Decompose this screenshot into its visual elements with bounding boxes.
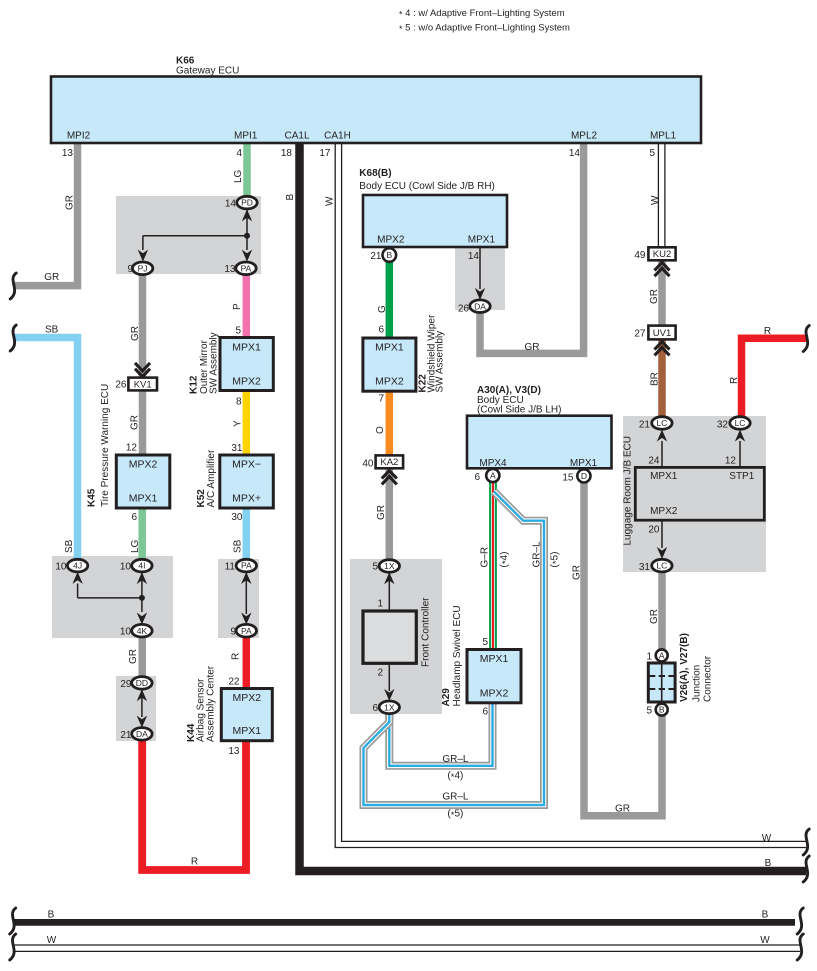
svg-text:* 5 : w/o Adaptive Front–Light: * 5 : w/o Adaptive Front–Lighting System xyxy=(399,23,570,35)
svg-text:UV1: UV1 xyxy=(653,328,671,339)
svg-text:Gateway ECU: Gateway ECU xyxy=(176,66,239,77)
svg-text:31: 31 xyxy=(231,443,243,454)
svg-text:1X: 1X xyxy=(384,561,395,571)
svg-text:MPX1: MPX1 xyxy=(468,235,496,246)
svg-text:MPX2: MPX2 xyxy=(129,459,158,471)
svg-text:26: 26 xyxy=(458,304,470,315)
svg-text:B: B xyxy=(48,910,55,921)
svg-text:MPI1: MPI1 xyxy=(234,131,258,142)
svg-text:4J: 4J xyxy=(73,561,82,571)
svg-text:LG: LG xyxy=(130,539,141,553)
svg-text:MPX1: MPX1 xyxy=(129,493,158,505)
svg-text:K68(B): K68(B) xyxy=(359,168,391,179)
svg-text:32: 32 xyxy=(717,420,729,431)
svg-text:PJ: PJ xyxy=(138,263,148,273)
svg-text:24: 24 xyxy=(648,456,660,467)
svg-text:5: 5 xyxy=(649,148,655,159)
svg-text:4: 4 xyxy=(236,148,242,159)
svg-text:17: 17 xyxy=(319,148,331,159)
svg-text:12: 12 xyxy=(725,456,737,467)
svg-text:GR: GR xyxy=(65,195,76,210)
svg-text:(*5): (*5) xyxy=(550,552,563,568)
svg-text:MPX2: MPX2 xyxy=(375,376,404,388)
svg-text:LC: LC xyxy=(656,561,667,571)
svg-text:MPX2: MPX2 xyxy=(233,692,262,704)
svg-text:6: 6 xyxy=(378,325,384,336)
svg-text:(*4): (*4) xyxy=(499,552,512,568)
svg-text:13: 13 xyxy=(228,746,240,757)
svg-text:6: 6 xyxy=(482,707,488,718)
svg-text:26: 26 xyxy=(115,380,127,391)
svg-text:MPX4: MPX4 xyxy=(479,458,507,469)
svg-text:1: 1 xyxy=(646,652,652,663)
svg-text:MPL1: MPL1 xyxy=(650,131,677,142)
svg-text:KU2: KU2 xyxy=(653,249,671,260)
svg-text:MPL2: MPL2 xyxy=(571,131,598,142)
svg-text:B: B xyxy=(285,194,296,201)
svg-text:GR: GR xyxy=(130,415,141,430)
svg-text:1: 1 xyxy=(377,599,383,610)
svg-text:Connector: Connector xyxy=(703,655,714,702)
svg-text:GR–L: GR–L xyxy=(531,541,542,568)
svg-text:5: 5 xyxy=(235,326,241,337)
svg-text:6: 6 xyxy=(131,512,137,523)
svg-text:5: 5 xyxy=(372,562,378,573)
svg-text:14: 14 xyxy=(225,199,237,210)
svg-text:G–R: G–R xyxy=(480,547,491,568)
svg-text:MPX1: MPX1 xyxy=(570,458,598,469)
svg-text:Junction: Junction xyxy=(692,665,703,702)
svg-text:SW Assembly: SW Assembly xyxy=(209,332,220,394)
svg-text:9: 9 xyxy=(127,264,133,275)
svg-text:GR: GR xyxy=(128,649,139,664)
svg-text:Headlamp Swivel ECU: Headlamp Swivel ECU xyxy=(452,605,463,706)
svg-text:GR–L: GR–L xyxy=(442,792,469,803)
svg-text:40: 40 xyxy=(362,459,374,470)
svg-text:KA2: KA2 xyxy=(380,457,398,468)
svg-text:5: 5 xyxy=(482,637,488,648)
svg-text:Body ECU (Cowl Side J/B RH): Body ECU (Cowl Side J/B RH) xyxy=(359,181,495,192)
svg-text:R: R xyxy=(729,377,740,384)
svg-text:P: P xyxy=(232,303,243,310)
svg-text:10: 10 xyxy=(120,627,132,638)
svg-text:STP1: STP1 xyxy=(729,471,754,482)
svg-text:GR: GR xyxy=(615,804,630,815)
svg-text:MPX1: MPX1 xyxy=(375,342,404,354)
svg-text:6: 6 xyxy=(474,472,480,483)
svg-text:(*4): (*4) xyxy=(447,771,463,784)
svg-text:MPX−: MPX− xyxy=(232,459,261,471)
svg-text:6: 6 xyxy=(372,703,378,714)
svg-text:GR: GR xyxy=(649,609,660,624)
svg-text:W: W xyxy=(325,196,336,206)
svg-text:LG: LG xyxy=(233,169,244,183)
svg-text:G: G xyxy=(377,305,388,313)
svg-text:Tire Pressure Warning ECU: Tire Pressure Warning ECU xyxy=(100,384,111,507)
svg-text:B: B xyxy=(659,705,665,715)
svg-text:29: 29 xyxy=(120,679,132,690)
svg-text:GR: GR xyxy=(44,272,59,283)
svg-text:SB: SB xyxy=(64,539,75,553)
svg-text:MPX2: MPX2 xyxy=(232,376,261,388)
svg-text:PD: PD xyxy=(241,198,253,208)
svg-text:W: W xyxy=(760,935,770,946)
svg-text:MPX2: MPX2 xyxy=(480,687,509,699)
svg-text:21: 21 xyxy=(639,420,651,431)
svg-text:DD: DD xyxy=(136,678,148,688)
svg-text:13: 13 xyxy=(62,148,74,159)
svg-text:GR: GR xyxy=(572,565,583,580)
svg-text:49: 49 xyxy=(634,250,646,261)
svg-text:8: 8 xyxy=(236,397,242,408)
svg-text:A29: A29 xyxy=(441,688,452,707)
svg-text:12: 12 xyxy=(126,443,138,454)
svg-text:10: 10 xyxy=(55,562,67,573)
svg-text:13: 13 xyxy=(224,264,236,275)
svg-text:Y: Y xyxy=(233,420,244,427)
svg-text:W: W xyxy=(47,935,57,946)
svg-text:A: A xyxy=(490,471,496,481)
svg-text:GR: GR xyxy=(130,326,141,341)
svg-text:2: 2 xyxy=(377,668,383,679)
svg-text:PA: PA xyxy=(241,626,252,636)
svg-text:4I: 4I xyxy=(138,561,145,571)
svg-text:B: B xyxy=(762,910,769,921)
svg-text:KV1: KV1 xyxy=(134,379,152,390)
svg-text:18: 18 xyxy=(281,148,293,159)
svg-text:GR–L: GR–L xyxy=(442,754,469,765)
svg-text:CA1H: CA1H xyxy=(324,131,351,142)
svg-text:31: 31 xyxy=(639,562,651,573)
svg-text:14: 14 xyxy=(569,148,581,159)
svg-text:27: 27 xyxy=(634,329,646,340)
svg-text:10: 10 xyxy=(120,562,132,573)
svg-text:MPX1: MPX1 xyxy=(232,342,261,354)
svg-text:R: R xyxy=(764,326,771,337)
svg-text:CA1L: CA1L xyxy=(284,131,309,142)
svg-text:GR: GR xyxy=(376,505,387,520)
svg-text:1X: 1X xyxy=(384,702,395,712)
svg-text:GR: GR xyxy=(525,342,540,353)
svg-text:Luggage Room J/B ECU: Luggage Room J/B ECU xyxy=(623,436,634,546)
svg-text:R: R xyxy=(191,857,198,868)
svg-text:7: 7 xyxy=(378,394,384,405)
svg-text:30: 30 xyxy=(231,512,243,523)
svg-text:MPX+: MPX+ xyxy=(232,493,261,505)
svg-text:PA: PA xyxy=(241,263,252,273)
svg-text:B: B xyxy=(386,250,392,260)
svg-text:BR: BR xyxy=(650,372,661,386)
svg-text:LC: LC xyxy=(735,418,746,428)
svg-text:MPX2: MPX2 xyxy=(650,506,678,517)
svg-text:MPI2: MPI2 xyxy=(67,131,91,142)
svg-text:Front Controller: Front Controller xyxy=(421,597,432,667)
svg-text:22: 22 xyxy=(228,677,240,688)
svg-text:(*5): (*5) xyxy=(447,809,463,822)
svg-text:W: W xyxy=(650,195,661,205)
svg-text:SB: SB xyxy=(45,325,59,336)
svg-text:MPX1: MPX1 xyxy=(233,725,262,737)
svg-text:14: 14 xyxy=(468,251,480,262)
svg-text:V26(A), V27(B): V26(A), V27(B) xyxy=(679,633,690,702)
svg-text:K12: K12 xyxy=(189,375,200,394)
svg-text:Assembly Center: Assembly Center xyxy=(206,665,217,742)
svg-text:LC: LC xyxy=(656,418,667,428)
svg-text:21: 21 xyxy=(120,730,132,741)
svg-text:4K: 4K xyxy=(137,626,148,636)
svg-text:DA: DA xyxy=(474,301,486,311)
svg-text:D: D xyxy=(581,471,587,481)
svg-text:* 4 : w/ Adaptive Front–Lighti: * 4 : w/ Adaptive Front–Lighting System xyxy=(399,8,565,20)
svg-text:15: 15 xyxy=(562,473,574,484)
svg-text:(Cowl Side J/B LH): (Cowl Side J/B LH) xyxy=(477,405,561,416)
svg-text:SW Assembly: SW Assembly xyxy=(435,331,446,393)
svg-text:DA: DA xyxy=(136,729,148,739)
svg-text:PA: PA xyxy=(241,561,252,571)
svg-text:20: 20 xyxy=(648,525,660,536)
svg-text:MPX2: MPX2 xyxy=(377,235,405,246)
svg-text:O: O xyxy=(375,426,386,434)
svg-text:5: 5 xyxy=(646,706,652,717)
svg-text:B: B xyxy=(765,858,772,869)
svg-text:GR: GR xyxy=(649,289,660,304)
svg-text:SB: SB xyxy=(233,539,244,553)
svg-text:A: A xyxy=(659,651,665,661)
svg-text:MPX1: MPX1 xyxy=(650,471,678,482)
svg-text:21: 21 xyxy=(370,251,382,262)
svg-text:A/C Amplifier: A/C Amplifier xyxy=(206,449,217,507)
svg-text:R: R xyxy=(231,653,242,660)
svg-text:9: 9 xyxy=(230,627,236,638)
svg-text:11: 11 xyxy=(225,562,236,573)
svg-text:W: W xyxy=(762,833,772,844)
svg-text:K45: K45 xyxy=(87,488,98,507)
svg-text:MPX1: MPX1 xyxy=(480,653,509,665)
